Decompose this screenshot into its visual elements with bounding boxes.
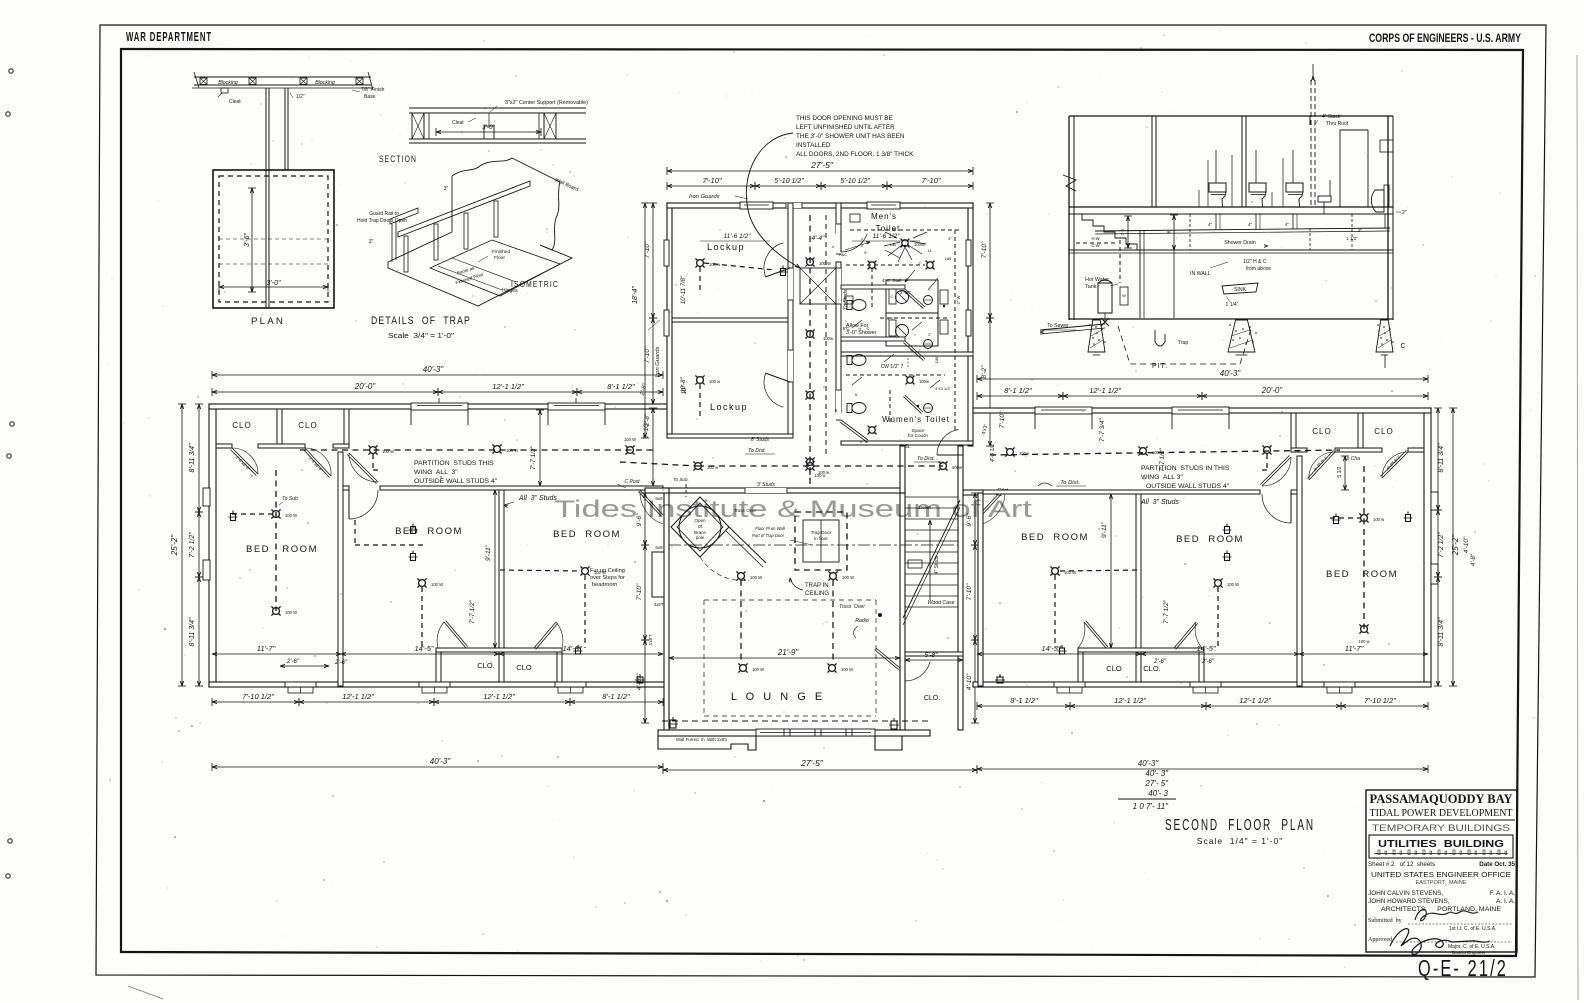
right wing electrical top corridor <box>990 450 1340 455</box>
tower side dims left <box>644 203 646 438</box>
svg-text:100 W: 100 W <box>1227 582 1239 587</box>
right wing bed east entry door <box>1260 455 1291 486</box>
lounge open brace pole circle <box>679 506 721 548</box>
svg-text:TIDAL POWER DEVELOPMENT: TIDAL POWER DEVELOPMENT <box>1370 807 1513 819</box>
svg-text:100 W: 100 W <box>506 448 518 453</box>
svg-text:40'- 3": 40'- 3" <box>1145 769 1169 778</box>
svg-text:7'-10 1/2": 7'-10 1/2" <box>242 692 274 701</box>
plumbing section: right toilet <box>1371 190 1384 212</box>
svg-text:2": 2" <box>928 332 932 337</box>
svg-text:TEMPORARY BUILDINGS: TEMPORARY BUILDINGS <box>1372 823 1510 834</box>
mens toilet central stall block <box>886 280 938 346</box>
svg-text:CLO: CLO <box>516 663 532 672</box>
lounge 21-9 dim <box>669 657 900 659</box>
mens toilet entry door <box>836 224 841 254</box>
svg-text:A. I. A.: A. I. A. <box>1496 898 1515 905</box>
svg-text:100 w: 100 w <box>814 473 826 478</box>
lounge trap door dashed rect <box>795 512 847 570</box>
svg-text:To Dist.: To Dist. <box>748 448 766 454</box>
left wing CLO2 east wall <box>344 409 349 448</box>
svg-text:Base: Base <box>364 94 376 100</box>
svg-text:To Sub: To Sub <box>282 496 298 502</box>
svg-text:3'-6": 3'-6" <box>244 233 251 247</box>
svg-text:Hot Water: Hot Water <box>1085 277 1109 283</box>
right wing bottom wall <box>973 682 1431 687</box>
left wing top wall window 2 <box>548 403 605 410</box>
svg-text:4" Studs: 4" Studs <box>934 555 940 574</box>
right wing east bedroom height dim <box>1344 456 1346 490</box>
svg-text:11'-7": 11'-7" <box>257 644 276 653</box>
svg-text:Men's: Men's <box>871 212 897 221</box>
stair bottom wall and closet <box>905 652 963 656</box>
svg-text:H&C: H&C <box>839 253 847 257</box>
svg-text:7'-10 1/2": 7'-10 1/2" <box>1364 696 1396 705</box>
svg-text:Iron Guards: Iron Guards <box>689 194 720 200</box>
svg-text:6x8: 6x8 <box>655 545 663 550</box>
svg-text:Floor: Floor <box>494 255 505 261</box>
svg-text:100 W: 100 W <box>842 575 854 580</box>
svg-text:12'-1 1/2": 12'-1 1/2" <box>1114 696 1146 705</box>
plumbing section: toilets on second floor <box>1209 183 1226 192</box>
svg-text:WING ALL 3": WING ALL 3" <box>1141 474 1183 481</box>
svg-text:3' Studs: 3' Studs <box>757 482 775 488</box>
left wing dims bottom <box>212 701 299 703</box>
svg-text:CLO.: CLO. <box>924 695 940 702</box>
svg-text:8'-1 1/2": 8'-1 1/2" <box>1004 386 1032 395</box>
svg-text:7-6: 7-6 <box>1120 228 1125 235</box>
lounge lamps <box>738 573 745 580</box>
svg-text:SINK: SINK <box>1234 287 1247 293</box>
lounge top wall opening <box>745 488 787 493</box>
svg-text:BED ROOM: BED ROOM <box>1021 532 1089 543</box>
svg-text:4": 4" <box>1285 222 1290 227</box>
svg-text:14'-5": 14'-5" <box>414 644 433 653</box>
stair up arrow <box>929 520 931 600</box>
lockup divider wall <box>672 318 788 322</box>
svg-text:8'-1 1/2": 8'-1 1/2" <box>607 382 635 391</box>
mens toilet urinal <box>850 214 860 222</box>
plumbing section: to sewer pipe <box>1040 324 1105 330</box>
svg-text:C: C <box>919 348 922 353</box>
svg-text:10'-11 7/8": 10'-11 7/8" <box>681 275 687 304</box>
lounge bottom windows <box>756 729 875 736</box>
trap detail: SECTION floor assembly <box>409 107 586 109</box>
plumbing section: break mark on left wall <box>1063 175 1076 191</box>
svg-text:JOHN HOWARD STEVENS,: JOHN HOWARD STEVENS, <box>1368 898 1450 905</box>
svg-text:CLO.: CLO. <box>1143 664 1161 673</box>
svg-text:from above: from above <box>1246 266 1271 272</box>
toilet area extra clutter marks <box>845 242 870 250</box>
svg-text:Date Oct. 35: Date Oct. 35 <box>1479 861 1515 868</box>
womens toilet fixtures <box>847 403 866 414</box>
left wing bedroom1/2 divider wall <box>338 452 343 686</box>
svg-text:14'-5": 14'-5" <box>1196 644 1215 653</box>
svg-text:DETAILS OF TRAP: DETAILS OF TRAP <box>371 315 471 327</box>
svg-text:100 W: 100 W <box>841 667 853 672</box>
toilet area dashed wiring <box>850 229 960 231</box>
svg-text:5'-10 1/2": 5'-10 1/2" <box>840 178 870 185</box>
svg-text:27'-5": 27'-5" <box>800 758 824 768</box>
svg-text:7'-7 1/2": 7'-7 1/2" <box>530 445 537 469</box>
trap detail: center support <box>484 126 494 139</box>
right wing top wall window 1 <box>1035 407 1092 414</box>
truss over center line <box>669 544 958 546</box>
tower top wall <box>667 203 973 208</box>
toilet block bottom wall women <box>841 441 973 445</box>
svg-text:3'-10": 3'-10" <box>900 290 912 295</box>
svg-text:H: H <box>859 326 862 331</box>
lounge ceiling dashed rect <box>704 599 876 601</box>
plumbing section: extra flush pipes upper storey <box>1207 160 1209 207</box>
tower west wall <box>667 203 672 438</box>
svg-text:BED ROOM: BED ROOM <box>246 544 318 555</box>
bottom left stray mark <box>128 986 163 999</box>
svg-text:27'- 5": 27'- 5" <box>1144 779 1169 788</box>
svg-text:8'-11 3/4": 8'-11 3/4" <box>189 443 196 473</box>
left wing interior dim row <box>212 653 341 655</box>
svg-text:4": 4" <box>864 250 868 255</box>
svg-text:7'-10": 7'-10" <box>921 176 940 185</box>
svg-text:8' Studs: 8' Studs <box>751 437 769 443</box>
svg-text:Lockup: Lockup <box>707 242 745 252</box>
trap detail: shaft walls down to plan <box>265 88 267 170</box>
svg-text:WING ALL 3": WING ALL 3" <box>414 469 458 476</box>
svg-text:3'-0": 3'-0" <box>482 124 496 131</box>
svg-text:14'-3": 14'-3" <box>1041 644 1060 653</box>
left wing bottom closet dividers <box>436 652 441 682</box>
svg-text:Lav: Lav <box>890 242 896 247</box>
svg-text:Fur up Ceiling: Fur up Ceiling <box>590 568 625 574</box>
right wing west wall <box>978 493 983 686</box>
svg-text:1/2": 1/2" <box>296 94 305 100</box>
right wing dims east side <box>1437 408 1439 510</box>
svg-text:2'-6": 2'-6" <box>1201 659 1215 665</box>
svg-text:District Engineer: District Engineer <box>1452 950 1486 955</box>
left margin punch hole specks <box>9 69 13 73</box>
left wing west wall windows <box>203 488 210 506</box>
svg-text:Lt.: Lt. <box>928 248 932 253</box>
svg-text:8'-11 3/4": 8'-11 3/4" <box>1438 617 1445 647</box>
svg-text:F. A. I. A.: F. A. I. A. <box>1490 890 1515 897</box>
svg-text:3'd Studs: 3'd Studs <box>843 289 849 310</box>
svg-text:8'-2": 8'-2" <box>981 365 988 379</box>
svg-text:8'-1 1/2": 8'-1 1/2" <box>1010 696 1038 705</box>
svg-text:EASTPORT, MAINE: EASTPORT, MAINE <box>1416 880 1467 886</box>
corridor electrical <box>809 215 811 480</box>
svg-text:100 W: 100 W <box>750 575 762 580</box>
svg-text:3"S: 3"S <box>887 316 894 321</box>
right wing dims top <box>977 378 1428 380</box>
plumbing section: stairs at left <box>1082 214 1148 250</box>
svg-text:CLO.: CLO. <box>477 661 495 670</box>
svg-text:Submitted by: Submitted by <box>1368 918 1402 924</box>
svg-text:40'-3": 40'-3" <box>1138 759 1160 768</box>
svg-text:100 w: 100 w <box>1373 517 1385 522</box>
svg-text:TRAP IN: TRAP IN <box>805 583 829 589</box>
svg-text:THIS DOOR OPENING MUST BE: THIS DOOR OPENING MUST BE <box>796 115 893 122</box>
svg-text:Approved: Approved <box>1368 937 1392 943</box>
svg-text:4'-8": 4'-8" <box>1471 553 1477 566</box>
svg-text:4'-4": 4'-4" <box>812 235 826 242</box>
right wing bed west circuit <box>1052 568 1059 575</box>
svg-text:27'-5": 27'-5" <box>810 160 834 170</box>
tower top dims <box>667 170 973 172</box>
left wing west wall <box>209 404 216 686</box>
svg-text:Hold Trap Doors Open: Hold Trap Doors Open <box>357 218 407 224</box>
trap detail: ceiling joist section <box>194 76 371 78</box>
svg-text:Trap: Trap <box>1178 340 1188 346</box>
plumbing section: hw riser dashed <box>1119 240 1121 283</box>
svg-text:8'-1 1/2": 8'-1 1/2" <box>602 692 630 701</box>
svg-text:7'-10": 7'-10" <box>644 346 651 363</box>
svg-text:100 W: 100 W <box>285 610 297 615</box>
svg-text:H.W.: H.W. <box>1091 236 1100 241</box>
lounge side dims east <box>974 493 976 545</box>
svg-text:ARCHITECTS PORTLAND, MAIN: ARCHITECTS PORTLAND, MAINE <box>1381 907 1501 913</box>
svg-text:CLO: CLO <box>232 421 251 430</box>
svg-text:20'-0": 20'-0" <box>1261 386 1284 395</box>
svg-text:21'-9": 21'-9" <box>777 648 800 657</box>
svg-text:4'-10": 4'-10" <box>966 673 973 690</box>
svg-text:1 1/4": 1 1/4" <box>1226 302 1239 308</box>
svg-text:PARTITION STUDS THIS: PARTITION STUDS THIS <box>414 460 494 467</box>
lounge SW footing <box>658 736 756 750</box>
svg-text:2": 2" <box>918 261 922 266</box>
left wing dims top <box>212 374 663 376</box>
left wing closet door bed2 side <box>444 621 468 648</box>
svg-text:4'x8'T: 4'x8'T <box>648 634 653 645</box>
svg-text:H: H <box>911 348 914 353</box>
lounge east wall upper <box>900 493 905 730</box>
svg-text:3": 3" <box>369 239 374 245</box>
svg-text:4'-10": 4'-10" <box>636 673 643 690</box>
svg-text:CLO: CLO <box>1106 664 1122 673</box>
svg-text:100w: 100w <box>919 379 930 384</box>
svg-text:4'-0" Stall: 4'-0" Stall <box>882 278 901 283</box>
tower east wall windows <box>966 240 971 266</box>
left wing bottom wall <box>209 682 667 687</box>
dim 5-8 stair <box>905 659 963 661</box>
left wing electrical dashed circuit top corridor <box>300 449 655 451</box>
tower top wall door opening <box>786 203 802 208</box>
trap detail: PLAN view box <box>213 170 334 308</box>
right wing bed middle circuit <box>1215 580 1222 587</box>
svg-text:3"x2" Center Support (Removabl: 3"x2" Center Support (Removable) <box>505 100 588 106</box>
right wing bed middle entry door <box>1290 494 1292 523</box>
lounge SE footing <box>875 736 902 750</box>
svg-text:4" St: 4" St <box>860 439 869 444</box>
right wing bottom wall windows <box>1324 682 1355 687</box>
svg-text:2'-8": 2'-8" <box>645 413 651 427</box>
left wing top wall window 1 <box>411 403 468 410</box>
svg-text:CLO: CLO <box>298 421 317 430</box>
svg-text:12'-1 1/2": 12'-1 1/2" <box>1239 696 1271 705</box>
right wing east wall windows <box>1431 492 1438 510</box>
lounge bottom dim 27-5 <box>663 769 977 771</box>
svg-text:8'-11 3/4": 8'-11 3/4" <box>1438 443 1445 473</box>
svg-text:9'-11": 9'-11" <box>1101 521 1108 538</box>
svg-text:100w: 100w <box>1019 451 1030 456</box>
svg-text:4'-10": 4'-10" <box>1463 536 1470 553</box>
left wing top wall <box>209 404 667 409</box>
title block rule <box>1368 819 1515 821</box>
svg-text:7'-7 1/2": 7'-7 1/2" <box>469 599 476 623</box>
svg-text:5 1/2: 5 1/2 <box>1337 466 1343 477</box>
svg-text:C.W.: C.W. <box>1091 243 1100 248</box>
hall wall stub east of stairs <box>963 490 983 495</box>
svg-text:12'-1 1/2": 12'-1 1/2" <box>483 692 515 701</box>
svg-text:To Sub.: To Sub. <box>673 477 689 482</box>
svg-text:7/8" Finish: 7/8" Finish <box>361 87 385 93</box>
right wing closet doors <box>1084 621 1108 648</box>
tower west wall windows with iron guards <box>664 240 669 266</box>
mens toilet light cluster leaders <box>902 240 908 246</box>
title block: approved signature <box>1390 929 1490 955</box>
svg-text:40'-3": 40'-3" <box>430 757 452 766</box>
svg-text:Wood Case: Wood Case <box>927 600 954 606</box>
plumbing section: footings <box>1088 320 1105 352</box>
svg-text:Wall Furred In With 2x6's: Wall Furred In With 2x6's <box>676 737 728 742</box>
svg-text:12'-1 1/2": 12'-1 1/2" <box>1089 386 1121 395</box>
svg-text:OUTSIDE WALL STUDS 4": OUTSIDE WALL STUDS 4" <box>414 478 498 485</box>
svg-text:WAR DEPARTMENT: WAR DEPARTMENT <box>126 29 212 44</box>
tower side dims right <box>989 203 991 318</box>
svg-text:11'-6 1/2": 11'-6 1/2" <box>724 233 752 240</box>
right wing closets south wall <box>1408 448 1424 452</box>
lounge ceiling dashed line above bottom wall <box>662 720 930 722</box>
svg-text:BED ROOM: BED ROOM <box>1326 569 1398 580</box>
svg-text:pole: pole <box>696 535 705 540</box>
lounge west wall chimney jog <box>652 552 664 597</box>
svg-text:in floor: in floor <box>814 536 828 541</box>
plumbing section: pit dashed outline <box>1118 326 1252 364</box>
svg-text:1/2" H & C: 1/2" H & C <box>1243 259 1267 265</box>
svg-text:Toilet: Toilet <box>876 224 901 233</box>
mens/womens divider wall <box>841 352 973 356</box>
svg-text:PARTITION STUDS IN THIS: PARTITION STUDS IN THIS <box>1141 465 1230 472</box>
svg-text:C: C <box>891 294 894 299</box>
svg-text:100 W: 100 W <box>382 449 394 454</box>
right wing top wall <box>973 408 1431 413</box>
svg-text:6"C: 6"C <box>843 326 850 331</box>
trap detail: plan dim 3'-6 <box>251 188 253 292</box>
svg-text:L O U N G E: L O U N G E <box>731 691 825 703</box>
left wing bottom closets north wall <box>436 648 562 652</box>
svg-text:SECTION: SECTION <box>379 154 417 164</box>
right wing bedroom divider east <box>1297 456 1302 686</box>
plumbing section: second floor line <box>1069 206 1393 208</box>
svg-text:5'-10 1/2": 5'-10 1/2" <box>774 178 804 185</box>
plumbing section: trap under floor <box>1155 330 1165 346</box>
lounge side dims west <box>644 493 646 545</box>
lockup bottom wall <box>667 434 793 438</box>
svg-text:100 w: 100 w <box>709 379 721 384</box>
svg-text:5'-8": 5'-8" <box>925 652 939 659</box>
lockup upper door <box>787 270 789 298</box>
paper right edge line <box>1577 55 1578 1000</box>
svg-text:To Cha: To Cha <box>1344 456 1360 462</box>
svg-text:C: C <box>867 326 870 331</box>
svg-text:JOHN CALVIN STEVENS,: JOHN CALVIN STEVENS, <box>1368 890 1443 897</box>
svg-text:25'-2": 25'-2" <box>170 534 179 557</box>
svg-text:11'-6 1/2": 11'-6 1/2" <box>873 233 901 240</box>
svg-text:3": 3" <box>444 186 449 192</box>
svg-text:Finished: Finished <box>492 249 510 255</box>
svg-text:Iron Guards: Iron Guards <box>655 347 661 378</box>
plumbing section: horizontal drain pipe <box>1095 228 1390 231</box>
plumbing section: foundation line <box>1069 318 1393 320</box>
title block: submitted signature <box>1415 909 1478 920</box>
stair west wall upper segment <box>900 446 905 493</box>
svg-text:Lav: Lav <box>934 356 939 364</box>
svg-text:Trap Door: Trap Door <box>811 530 832 535</box>
svg-text:7'-10": 7'-10" <box>966 583 973 600</box>
left wing bedroom2/3 divider wall <box>499 490 504 652</box>
plumbing section: column line C <box>1384 355 1386 368</box>
tower top wall window right <box>867 202 900 209</box>
lockup lamps <box>697 260 704 267</box>
lounge top wall west stub <box>645 488 669 493</box>
svg-text:7'-10": 7'-10" <box>999 411 1006 428</box>
right wing bottom closets north wall <box>1078 648 1204 652</box>
svg-text:ALL DOORS, 2ND FLOOR, 1 3/8" T: ALL DOORS, 2ND FLOOR, 1 3/8" THICK <box>796 151 914 158</box>
plumbing section: first floor line <box>1069 249 1393 251</box>
svg-text:4" Stack: 4" Stack <box>1322 114 1341 120</box>
right wing top wall window 2 <box>1172 407 1229 414</box>
svg-text:2": 2" <box>1358 228 1363 233</box>
svg-text:SECOND FLOOR PLAN: SECOND FLOOR PLAN <box>1165 817 1315 834</box>
svg-text:18'-4": 18'-4" <box>632 286 639 304</box>
svg-text:1 0 7'- 11": 1 0 7'- 11" <box>1133 802 1170 811</box>
svg-text:To Dist.: To Dist. <box>917 456 935 462</box>
svg-text:over Steps for: over Steps for <box>590 575 625 581</box>
lockup east wall <box>788 203 793 438</box>
left wing closet door bed3 side <box>534 622 558 649</box>
svg-text:Cleat: Cleat <box>452 120 464 126</box>
svg-text:PASSAMAQUODDY BAY: PASSAMAQUODDY BAY <box>1370 792 1513 806</box>
plumbing section: lavatory on wall <box>1318 196 1331 202</box>
svg-text:Tides Institute & Museum of Ar: Tides Institute & Museum of Art <box>554 496 1032 523</box>
svg-text:4x8'T: 4x8'T <box>654 602 665 607</box>
svg-text:7'-10": 7'-10" <box>981 241 988 258</box>
tower note leader curve <box>746 133 800 268</box>
svg-text:4'-3 1/2": 4'-3 1/2" <box>990 441 996 462</box>
svg-text:7'-2 1/2": 7'-2 1/2" <box>189 532 196 558</box>
shower stall rect <box>800 268 836 304</box>
left wing bed2 entry door <box>348 490 350 519</box>
svg-text:PIT.: PIT. <box>1152 363 1168 370</box>
lockup lower door <box>788 350 793 382</box>
lounge diamond brace frame <box>671 497 729 557</box>
svg-text:100 W: 100 W <box>285 513 297 518</box>
right wing CLO doors <box>1380 450 1408 478</box>
svg-text:40'- 3: 40'- 3 <box>1148 789 1168 798</box>
svg-text:9'-11": 9'-11" <box>485 544 492 561</box>
svg-text:100 W: 100 W <box>624 437 636 442</box>
shower unit opening <box>836 268 841 304</box>
svg-text:4": 4" <box>1248 222 1253 227</box>
svg-text:CW 1/2" 7: CW 1/2" 7 <box>881 364 904 370</box>
right wing bottom closet dividers <box>1078 652 1083 682</box>
stair top door arc <box>937 454 963 456</box>
right wing corridor south wall <box>1291 490 1297 494</box>
svg-text:OUTSIDE WALL STUDS 4": OUTSIDE WALL STUDS 4" <box>1146 483 1230 490</box>
svg-text:11'-7": 11'-7" <box>1345 644 1364 653</box>
svg-text:2'-6": 2'-6" <box>334 660 348 666</box>
svg-text:40'-3": 40'-3" <box>1220 369 1242 378</box>
svg-text:Blocking: Blocking <box>218 80 238 86</box>
left wing CLO2 door <box>303 448 331 478</box>
